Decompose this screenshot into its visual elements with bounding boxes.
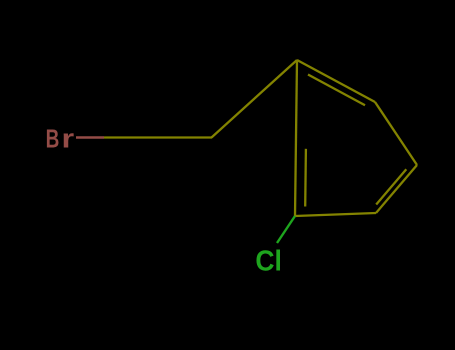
- svg-text:Cl: Cl: [255, 245, 282, 277]
- benzene ring side F-A (left-upper vertical): [296, 60, 297, 137]
- benzene ring side D-E (bottom): [295, 213, 376, 216]
- benzene ring side B-C (right-upper): [375, 102, 417, 165]
- svg-text:B: B: [46, 123, 60, 153]
- svg-text:r: r: [62, 124, 75, 153]
- benzene ring side E-F (left-lower vertical, outer): [295, 137, 296, 216]
- benzene ring side A-B (top-right, outer): [297, 60, 375, 102]
- bond C1-C2 horizontal (olive half): [104, 136, 212, 138]
- benzene ring side C-D (right-lower, outer): [376, 165, 417, 213]
- bond Br-C1 (bromine-colored half): [76, 136, 104, 138]
- benzene ring side C-D inner double line: [376, 169, 406, 204]
- bond ring-Cl (chlorine-colored): [277, 216, 295, 243]
- benzene ring side E-F inner double line: [304, 149, 307, 207]
- benzene ring side A-B inner double line: [308, 75, 365, 106]
- bond C2-ring ipso (diagonal): [212, 60, 298, 138]
